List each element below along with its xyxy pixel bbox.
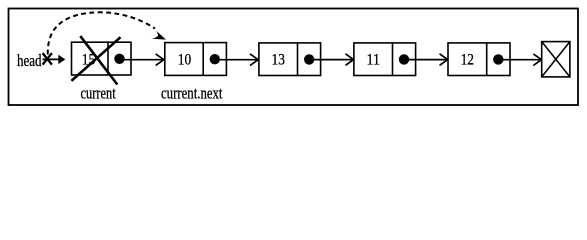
wire node11 to node12: [404, 59, 447, 61]
wire node10 to node13: [215, 59, 258, 61]
node 13 pointer dot: [304, 54, 314, 64]
null terminator box: [542, 42, 570, 77]
node 12 box: [448, 43, 510, 76]
svg-text:13: 13: [272, 52, 285, 69]
arrowhead dashed curve (solid): [152, 31, 166, 40]
arrowhead into node 13: [251, 54, 259, 65]
wire head-pointer shaft: [43, 58, 60, 60]
null box X diagonal 1: [542, 42, 570, 77]
arrowhead into node 11: [346, 54, 354, 65]
node 11 pointer dot: [399, 54, 409, 64]
svg-text:11: 11: [367, 52, 380, 69]
X cross over head pointer: [43, 53, 52, 65]
node 10 box: [165, 43, 227, 76]
null box X diagonal 2: [542, 42, 570, 77]
svg-text:current: current: [81, 84, 117, 103]
node 11 divider: [392, 43, 394, 76]
node 13 box: [259, 43, 321, 76]
outer frame border: [9, 9, 579, 106]
arrowhead head-pointer (solid): [58, 55, 65, 64]
svg-text:10: 10: [178, 52, 191, 69]
X cross over node 15: [80, 36, 117, 84]
node 15 divider: [107, 42, 109, 75]
node 11 box: [354, 43, 416, 76]
arrowhead into node 10: [156, 54, 164, 65]
node 15 pointer dot: [114, 54, 124, 64]
node 13 divider: [297, 43, 299, 76]
arrowhead into node 12: [440, 54, 448, 65]
wire node15 to node10: [120, 59, 164, 61]
svg-text:12: 12: [461, 52, 474, 69]
node 10 divider: [202, 43, 204, 76]
node 12 pointer dot: [493, 54, 503, 64]
svg-text:head: head: [17, 51, 42, 70]
arrowhead into null box: [534, 54, 542, 65]
node 12 divider: [486, 43, 488, 76]
dashed curve arrow to node 10: [48, 12, 155, 54]
wire node12 to null box: [498, 59, 541, 61]
node 10 pointer dot: [210, 54, 220, 64]
svg-text:current.next: current.next: [161, 84, 223, 103]
node 15 box: [72, 42, 132, 75]
wire node13 to node11: [309, 59, 353, 61]
